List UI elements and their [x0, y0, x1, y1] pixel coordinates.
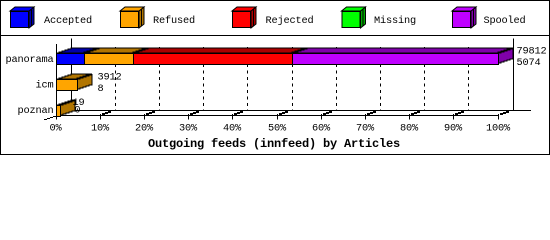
- bar panorama front face blue Accepted: [57, 54, 85, 65]
- svg-text:70%: 70%: [356, 122, 375, 134]
- tick front 30%: [188, 114, 190, 120]
- tick diagonal 70%: [367, 111, 376, 115]
- tick front 90%: [453, 114, 455, 120]
- dashed grid line 40%: [247, 47, 249, 110]
- dashed grid line 70%: [380, 47, 382, 110]
- dashed grid line 80%: [424, 47, 426, 110]
- dashed grid line 90%: [468, 47, 470, 110]
- tick diagonal 20%: [146, 111, 155, 115]
- bar icm side face orange Refused: [77, 74, 92, 90]
- bar panorama front face red Rejected: [134, 54, 293, 65]
- legend cube Rejected: [232, 7, 256, 28]
- svg-text:10%: 10%: [91, 122, 110, 134]
- origin diagonal staircase: [44, 111, 71, 120]
- tick front 50%: [277, 114, 279, 120]
- tick front 100%: [498, 114, 500, 120]
- outer border: [1, 1, 550, 155]
- svg-text:50%: 50%: [268, 122, 287, 134]
- tick front 20%: [144, 114, 146, 120]
- svg-text:Missing: Missing: [374, 15, 416, 27]
- legend cube Missing: [342, 7, 366, 28]
- svg-text:Spooled: Spooled: [484, 15, 526, 27]
- svg-text:79812: 79812: [517, 46, 547, 58]
- svg-text:3912: 3912: [98, 72, 122, 84]
- bar panorama top face purple Spooled: [292, 48, 513, 53]
- tick diagonal 30%: [190, 111, 199, 115]
- legend cube Refused: [120, 7, 144, 28]
- svg-text:30%: 30%: [179, 122, 198, 134]
- bar panorama front face purple Spooled: [293, 54, 499, 65]
- svg-text:icm: icm: [36, 80, 54, 92]
- svg-text:Refused: Refused: [153, 15, 195, 27]
- svg-text:80%: 80%: [400, 122, 419, 134]
- svg-text:0: 0: [74, 105, 80, 117]
- tick diagonal 80%: [411, 111, 420, 115]
- legend cube Spooled: [452, 7, 476, 28]
- solid grid line 100%: [513, 39, 515, 111]
- bar icm top face orange Refused: [56, 74, 92, 79]
- tick diagonal 10%: [102, 111, 111, 115]
- tick diagonal 50%: [279, 111, 288, 115]
- svg-text:5074: 5074: [517, 57, 541, 69]
- bar panorama side face purple Spooled: [498, 48, 513, 64]
- tick front 60%: [321, 114, 323, 120]
- dashed grid line 60%: [336, 47, 338, 110]
- svg-text:100%: 100%: [486, 122, 511, 134]
- svg-text:Accepted: Accepted: [44, 15, 92, 27]
- dashed grid line 20%: [159, 47, 161, 110]
- dashed grid line 10%: [115, 47, 117, 110]
- bar poznan front face orange Refused: [57, 106, 61, 117]
- bar panorama top face orange Refused: [84, 48, 148, 53]
- svg-text:20%: 20%: [135, 122, 154, 134]
- dashed grid line 30%: [203, 47, 205, 110]
- tick front 40%: [232, 114, 234, 120]
- bar panorama top face blue Accepted: [56, 48, 99, 53]
- bar poznan side face orange Refused: [60, 100, 75, 116]
- front x-axis baseline: [56, 115, 499, 117]
- back x-axis baseline: [71, 110, 531, 112]
- tick diagonal 40%: [234, 111, 243, 115]
- svg-text:Rejected: Rejected: [266, 15, 314, 27]
- svg-text:40%: 40%: [223, 122, 242, 134]
- tick front 70%: [365, 114, 367, 120]
- svg-text:Outgoing feeds (innfeed) by Ar: Outgoing feeds (innfeed) by Articles: [148, 137, 400, 151]
- tick diagonal 100%: [500, 111, 509, 115]
- tick front 80%: [409, 114, 411, 120]
- front y-axis: [56, 44, 58, 120]
- svg-text:0%: 0%: [50, 122, 63, 134]
- legend separator line: [0, 35, 550, 37]
- bar icm front face orange Refused: [57, 80, 78, 91]
- svg-text:poznan: poznan: [18, 105, 54, 117]
- tick diagonal 60%: [323, 111, 332, 115]
- tick diagonal 90%: [455, 111, 464, 115]
- legend cube Accepted: [10, 7, 34, 28]
- bar panorama front face orange Refused: [85, 54, 134, 65]
- bar panorama top face red Rejected: [133, 48, 307, 53]
- svg-text:60%: 60%: [312, 122, 331, 134]
- svg-text:90%: 90%: [444, 122, 463, 134]
- svg-text:8: 8: [98, 83, 104, 95]
- bar poznan top face orange Refused: [56, 100, 75, 105]
- dashed grid line 50%: [292, 47, 294, 110]
- tick front 10%: [100, 114, 102, 120]
- svg-text:panorama: panorama: [6, 54, 54, 66]
- back y-axis: [71, 39, 73, 111]
